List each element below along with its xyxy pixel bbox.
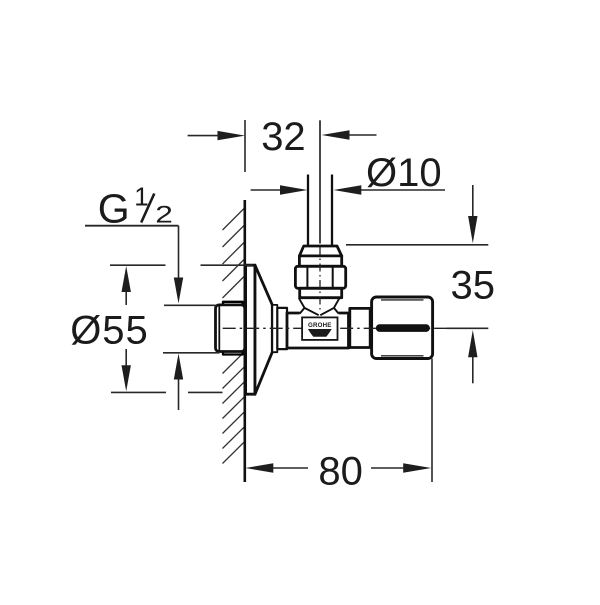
svg-text:35: 35	[451, 263, 496, 307]
svg-text:80: 80	[318, 449, 363, 493]
svg-text:GROHE: GROHE	[308, 322, 332, 329]
svg-text:Ø55: Ø55	[70, 309, 149, 353]
svg-text:Ø10: Ø10	[366, 151, 442, 195]
svg-text:1: 1	[134, 182, 148, 212]
svg-text:2: 2	[155, 201, 173, 227]
svg-text:32: 32	[261, 115, 306, 159]
svg-text:G: G	[98, 186, 130, 232]
